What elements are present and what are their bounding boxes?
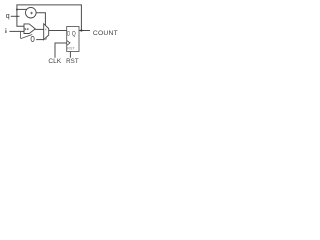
svg-text:CLK: CLK <box>48 58 62 65</box>
wire mux output to D <box>49 30 67 32</box>
adder plus sign <box>30 12 33 15</box>
wire reset stub <box>69 52 71 58</box>
svg-text:COUNT: COUNT <box>93 30 118 37</box>
wire constant 0 to mux <box>36 39 44 41</box>
svg-text:q: q <box>6 13 10 20</box>
wire adder input <box>17 8 27 10</box>
svg-text:D: D <box>67 30 70 37</box>
flip-flop clock chevron <box>67 40 70 45</box>
mux M1 trapezoid <box>44 24 49 40</box>
wire Q output <box>79 30 90 32</box>
comparator gate G1 pentagon <box>24 24 35 34</box>
flip-flop U2 box <box>67 27 79 52</box>
wire bus taper diagonal <box>21 35 33 39</box>
node i label <box>5 30 7 33</box>
node junction dot upper <box>16 9 18 11</box>
bus width slash on i wire <box>23 30 26 32</box>
wire i input <box>9 30 24 32</box>
node junction dot q stub <box>16 16 17 17</box>
wire q stub <box>11 15 20 17</box>
gate chevron mark <box>24 28 26 31</box>
wire adder output to mux select <box>36 13 45 26</box>
svg-text:Q: Q <box>72 30 76 37</box>
mux pin label 1 <box>45 29 47 31</box>
gate plus mark <box>27 28 29 30</box>
wire feedback from Q output around top to left rail <box>17 5 82 31</box>
svg-text:RST: RST <box>66 58 79 65</box>
wire gate output <box>35 28 43 30</box>
node junction dot Q output <box>80 29 82 31</box>
svg-text:RST: RST <box>67 46 75 50</box>
constant 0 label <box>31 36 34 41</box>
adder U1 circle <box>26 7 37 18</box>
wire bus rip drop from i wire <box>20 32 22 39</box>
wire clock input <box>55 43 67 58</box>
mux pin label 0 <box>45 38 46 40</box>
